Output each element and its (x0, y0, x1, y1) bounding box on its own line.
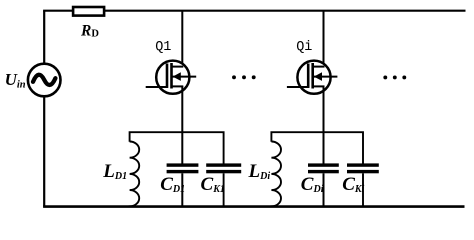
wire top bus (43, 10, 465, 12)
source U_in (AC) (28, 64, 61, 97)
wire Qi source down (323, 86, 325, 163)
resistor R_D (73, 7, 104, 16)
wire Q1 drain from top bus (181, 11, 183, 67)
svg-text:Qi: Qi (296, 40, 312, 55)
wire Q1 source down (181, 86, 183, 163)
capacitor C_Di (308, 163, 339, 173)
wire C_Ki to bottom (362, 173, 364, 206)
transistor Qi (287, 61, 338, 94)
capacitor C_Ki (347, 163, 379, 173)
wire C_K1 to bottom (223, 173, 225, 206)
wire tank1 top (130, 132, 224, 163)
ellipsis dots right (383, 75, 406, 79)
wire left vertical (43, 11, 45, 207)
inductor L_Di (271, 142, 281, 207)
transistor Q1 (146, 61, 197, 94)
wire bottom bus (43, 205, 464, 208)
wire C_D1 to bottom (181, 173, 183, 206)
svg-text:Q1: Q1 (155, 40, 171, 55)
ellipsis dots middle (232, 75, 256, 79)
wire C_Di to bottom (323, 173, 325, 206)
wire Qi drain from top bus (323, 11, 325, 67)
wire tank2 top (271, 132, 363, 163)
capacitor C_K1 (206, 163, 241, 173)
capacitor C_D1 (167, 163, 199, 173)
inductor L_D1 (130, 142, 140, 207)
